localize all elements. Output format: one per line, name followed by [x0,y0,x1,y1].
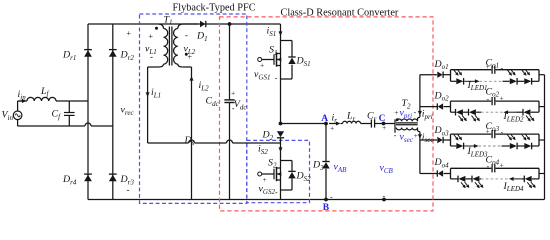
svg-text:Do4: Do4 [434,157,450,169]
wire rail to Do2 [420,106,437,108]
svg-text:A: A [321,114,328,124]
svg-text:-: - [330,192,333,201]
diode Do1 [437,72,442,78]
svg-text:-: - [232,104,235,113]
wire primary return [147,67,149,143]
box S2 cell (blue dashed) [247,140,310,202]
box Class-D converter (red dashed) [220,17,434,211]
node dot top rail Cdc [228,22,232,26]
inductor Lf [27,97,56,101]
node dot S-rail mid [279,122,283,126]
svg-text:+: + [231,89,235,98]
svg-text:iL2: iL2 [199,80,210,92]
svg-text:-: - [487,95,490,104]
svg-text:-: - [127,185,130,195]
svg-text:vGS1: vGS1 [254,69,270,81]
svg-text:Vdc: Vdc [234,99,248,111]
svg-text:vsec: vsec [400,132,414,144]
diode Dr2 [109,50,117,57]
diode Dr1 [84,50,92,57]
svg-text:+: + [127,29,132,38]
svg-text:-: - [414,108,417,117]
inductor Lr [341,123,343,125]
svg-text:+: + [394,108,398,117]
svg-text:+: + [500,95,504,103]
LED string 2 [451,111,456,113]
wire right output rail [544,75,546,200]
capacitor Co3 [491,130,493,138]
capacitor Co2 [491,97,493,105]
svg-text:Vin: Vin [2,110,14,122]
diode D2 [277,131,284,137]
svg-text:D1: D1 [196,31,208,43]
dot T2 primary polarity [396,118,399,121]
LED string 1 [451,80,457,82]
wire bridge top [88,23,281,25]
svg-text:+: + [149,32,154,41]
diode Do3 [437,137,442,143]
wire channel 3 frame [450,134,452,146]
transformer T2 secondary [396,128,417,130]
svg-text:D2: D2 [262,130,274,142]
body diode DS2 branch [281,160,293,162]
wire D3 to B [325,169,327,200]
transformer T1 core [168,27,170,66]
box flyback PFC (blue dashed) [140,14,247,203]
svg-text:iin: iin [18,89,27,101]
wire bridge left rail [87,24,89,200]
transformer T1 secondary winding [174,29,178,65]
svg-text:-: - [501,128,504,137]
arrow i_in [19,100,24,102]
svg-text:ILED2: ILED2 [503,111,525,123]
node C dot [382,122,386,126]
diode Dr4 [84,175,92,182]
svg-text:-: - [394,131,397,140]
svg-text:vAB: vAB [334,162,348,174]
svg-text:Cf: Cf [52,109,62,121]
transformer T1 primary winding [164,29,168,65]
svg-text:DS2: DS2 [296,171,312,183]
diode Do4 [438,170,443,176]
wire rail to Do3 [420,139,437,141]
svg-text:-: - [275,74,278,83]
wire S2 source [280,180,282,200]
ac source Vin [13,111,22,120]
svg-text:+: + [188,53,193,62]
arrow i_pri [418,111,422,116]
wire S1 source [280,66,282,124]
svg-text:-: - [275,188,278,197]
wire rail secondary down [419,140,421,174]
svg-text:Do3: Do3 [434,125,450,137]
wire mid rail to A [281,123,327,125]
wire rail primary up [419,75,421,107]
svg-text:Lf: Lf [40,86,50,98]
wire channel 2 frame [450,101,452,112]
transformer T2 left bar [394,119,396,133]
node B dot [324,198,328,202]
capacitor Cr [370,119,372,127]
svg-text:Lr: Lr [346,111,356,123]
svg-text:Do1: Do1 [434,59,449,71]
arrow i_L2 [190,76,194,81]
wire channel 4 frame [450,168,452,179]
diode Do2 [438,103,443,109]
arrow i_L1 [146,92,150,97]
wire input top [18,100,27,102]
svg-text:+: + [382,123,386,132]
capacitor Co1 [491,66,493,74]
node dot under C [382,198,386,202]
svg-text:+: + [486,63,490,71]
wire bridge bottom rail [88,199,545,201]
wire Cr to C [375,123,395,125]
arrow i_S1 [279,31,283,36]
capacitor Cdc [229,24,231,99]
transformer T2 core [396,122,418,124]
wire input bottom [18,125,85,127]
svg-text:-: - [487,162,490,171]
svg-text:vCB: vCB [380,163,394,175]
diode D3 [322,162,329,168]
capacitor Cf [68,101,70,112]
svg-text:iS2: iS2 [258,144,268,156]
svg-text:+: + [486,128,490,136]
diode D1 [200,21,205,27]
svg-text:T1: T1 [164,14,173,26]
svg-text:-: - [185,30,188,40]
svg-text:+: + [500,162,504,170]
wire S2 drain [280,138,282,168]
arrow i_r [329,123,338,125]
transformer T2 primary [396,119,417,121]
svg-text:vGS2: vGS2 [259,184,276,196]
svg-text:+: + [414,131,418,140]
dot T1 primary polarity [155,27,158,30]
svg-text:+: + [260,61,264,70]
body diode DS1 [288,58,295,64]
svg-text:iL1: iL1 [151,87,161,99]
svg-text:vrec: vrec [121,105,135,117]
wire S1 drain [280,24,282,54]
svg-text:iS1: iS1 [267,26,277,38]
svg-text:-: - [501,64,504,73]
wire A to D3 [325,124,327,162]
svg-text:ipri: ipri [422,109,433,121]
diode Dr3 [109,175,117,182]
wire secondary return [191,67,193,200]
wire bridge right rail [112,24,114,200]
svg-text:Cr: Cr [367,111,377,123]
svg-text:Do2: Do2 [434,90,450,102]
svg-text:Cdc: Cdc [206,96,220,108]
arrow i_S2 [279,147,283,152]
node A dot [324,122,328,126]
svg-text:S2: S2 [268,157,277,169]
svg-text:DS1: DS1 [296,56,311,68]
svg-text:ILED4: ILED4 [503,181,525,193]
dot T1 secondary polarity [185,53,188,56]
capacitor Co4 [491,164,493,172]
svg-text:+: + [263,175,267,184]
svg-text:Dr2: Dr2 [120,50,135,62]
svg-text:Dr1: Dr1 [62,50,76,62]
svg-text:Ds: Ds [184,135,195,147]
body diode DS2 [288,172,295,178]
body diode DS1 branch [281,40,293,42]
svg-text:+: + [330,123,334,132]
svg-text:B: B [323,203,330,213]
LED string 3 [451,145,457,147]
mosfet S1 [258,58,262,62]
LED string 4 [451,178,459,180]
svg-text:-: - [150,52,153,62]
arrow i_sec [418,134,422,139]
mosfet S2 [258,172,262,176]
svg-text:Flyback-Typed PFC: Flyback-Typed PFC [173,3,256,14]
svg-text:Dr4: Dr4 [62,174,77,186]
wire channel 1 frame [450,70,452,82]
